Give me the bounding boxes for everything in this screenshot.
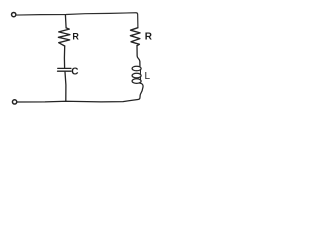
wire: R1 to capacitor lead [63, 46, 65, 68]
circuit schematic: two-terminal network, series RC branch parallel with series RL branch [0, 0, 160, 111]
capacitor C1 top plate [58, 67, 71, 69]
wire: middle branch top lead [64, 15, 67, 28]
wire top: T1 to top-right corner, down right vertical [16, 13, 138, 28]
inductor L1 loop 2 [132, 73, 141, 78]
terminal T1 (top-left open circle) [12, 12, 16, 16]
terminal T2 (bottom-left open circle) [12, 100, 16, 104]
inductor L1 loop 3 [132, 79, 141, 84]
wire: R2 to inductor with rightward drift [137, 46, 140, 67]
resistor R2 (right branch) [130, 28, 140, 46]
inductor L1 loop 1 [132, 66, 141, 71]
svg-text:C: C [71, 66, 78, 77]
svg-text:R: R [145, 32, 153, 43]
svg-text:L: L [145, 71, 151, 82]
wire: coil right-side connectors [139, 70, 141, 79]
svg-text:R: R [72, 31, 79, 41]
resistor R1 (middle branch) [58, 28, 70, 46]
capacitor C1 bottom plate [58, 70, 71, 72]
wire: capacitor bottom lead to bottom wire [64, 72, 67, 101]
wire bottom: coil exit curl, bottom-right corner, along bottom to T2 [17, 83, 143, 102]
